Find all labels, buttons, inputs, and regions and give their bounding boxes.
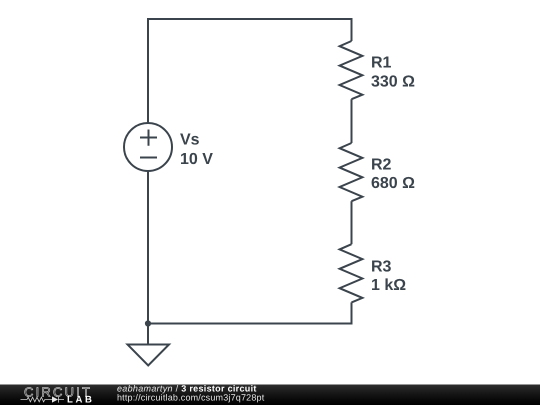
svg-text:R1: R1 bbox=[371, 55, 392, 72]
svg-text:http://circuitlab.com/csum3j7q: http://circuitlab.com/csum3j7q728pt bbox=[117, 392, 265, 402]
voltage source Vs bbox=[124, 123, 172, 171]
wire left-top and top bbox=[148, 19, 352, 123]
resistor R1 bbox=[340, 41, 363, 99]
wire bottom and left-bottom bbox=[148, 171, 352, 324]
svg-text:1 kΩ: 1 kΩ bbox=[371, 277, 406, 294]
wire R2-R3 bbox=[351, 201, 353, 244]
node junction bbox=[145, 320, 151, 326]
svg-text:10 V: 10 V bbox=[180, 151, 213, 168]
wire R1-R2 bbox=[351, 99, 353, 143]
svg-text:R2: R2 bbox=[371, 157, 392, 174]
resistor R2 bbox=[340, 143, 363, 201]
svg-text:LAB: LAB bbox=[67, 395, 95, 405]
footer bar bbox=[0, 385, 540, 405]
svg-text:330 Ω: 330 Ω bbox=[371, 74, 415, 91]
ground bbox=[147, 324, 149, 345]
svg-text:680 Ω: 680 Ω bbox=[371, 175, 415, 192]
logo schematic glyph bbox=[21, 397, 53, 402]
svg-text:R3: R3 bbox=[371, 258, 392, 275]
svg-text:Vs: Vs bbox=[180, 131, 200, 148]
resistor R3 bbox=[340, 244, 363, 302]
